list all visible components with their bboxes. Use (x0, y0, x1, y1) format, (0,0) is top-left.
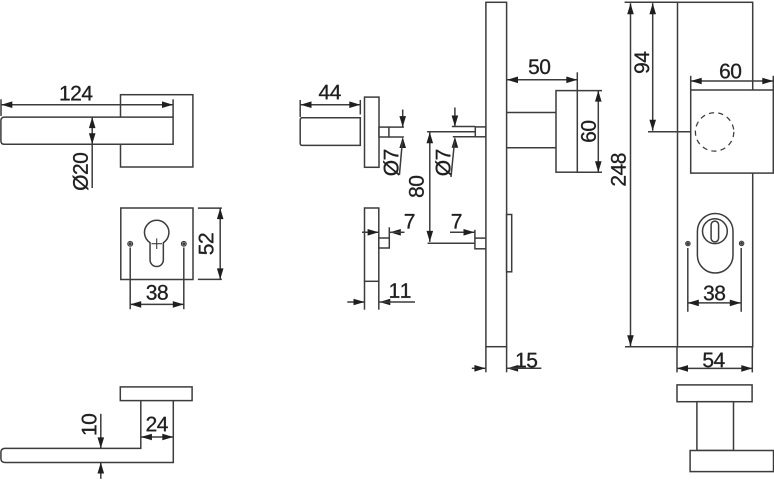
dim 15 left arrow (472, 365, 486, 372)
dim 124 extension line left (0, 99, 2, 116)
dim 60 extension top (577, 90, 602, 92)
cylinder axis extension line (648, 131, 691, 133)
key stub on plate (475, 238, 486, 249)
knob (side view) (556, 91, 577, 173)
plate section (bottom view) (677, 385, 752, 402)
dim 10 upper leader (98, 414, 105, 449)
dim label 60 front (720, 64, 741, 79)
dim label 38 plate (704, 286, 725, 301)
grip (top view) (300, 118, 360, 146)
dim 124 line (1, 101, 173, 108)
key slot (711, 221, 719, 242)
dim 80 line (427, 132, 434, 242)
security block (bottom view) (690, 451, 773, 472)
dim Ø7a lower arrow (399, 137, 406, 175)
dim label 94 (634, 52, 649, 73)
euro cylinder keyhole (145, 220, 169, 266)
dim 11 left arrow (347, 299, 364, 306)
dim 38 plate extension right (740, 248, 742, 312)
cylinder stub (side view) (379, 238, 390, 248)
dim 38 plate extension left (687, 248, 689, 312)
dim 60 block extension left (690, 76, 692, 90)
dim 7b left arrow (450, 229, 475, 236)
dim 52 line (217, 208, 224, 279)
dim label 80 (409, 176, 424, 197)
dim 7a extension (388, 227, 390, 238)
spindle stub (top view) (379, 127, 389, 137)
cylinder cover (side view) (507, 215, 512, 272)
dim 38 line (130, 301, 184, 308)
rosette (top view) (365, 97, 380, 167)
dim label 60 side (581, 121, 596, 142)
dim 11 right arrow (379, 299, 415, 306)
screw right (key rosette) (181, 241, 186, 246)
dim 50 extension (576, 72, 578, 90)
dim label 24 (147, 417, 168, 432)
dim label 248 (611, 153, 626, 185)
spindle square end (475, 127, 486, 137)
bottom extension line (625, 346, 678, 348)
dim 60 extension bottom (577, 171, 602, 173)
dim 44 extension right (359, 100, 361, 115)
dim 44 line (301, 101, 361, 108)
dim 38 plate line (688, 300, 741, 307)
cylinder axis extension (428, 242, 475, 244)
dim 94 line (649, 3, 656, 131)
dim 38 extension right (183, 248, 185, 310)
security block (691, 90, 774, 173)
dim label 54 (703, 353, 724, 368)
dim Ø20 leader line (89, 117, 96, 188)
rosette square (handle front view) (121, 95, 193, 167)
knob neck top line (507, 112, 556, 114)
dim Ø7a extension bottom (389, 136, 404, 138)
dim 54 extension right (751, 347, 753, 373)
dim label 11 (390, 283, 410, 297)
dim label 50 (529, 59, 550, 74)
dim 7a left arrow (362, 229, 379, 236)
dim 50 line (507, 77, 577, 84)
dim 10 lower leader (98, 463, 105, 479)
dim 15 right arrow (507, 365, 541, 372)
knob stem (bottom view) (697, 402, 734, 451)
long plate (side view) (486, 2, 507, 346)
centre cross (152, 238, 163, 249)
screw right (plate) (739, 241, 743, 245)
dim label Ø7b (435, 150, 451, 176)
dim 248 line (627, 3, 634, 346)
dim 44 extension left (299, 100, 301, 117)
spindle top edge (452, 126, 476, 128)
dim label 38 (147, 285, 168, 300)
dim 7a right arrow (390, 229, 405, 236)
screw left (key rosette) (128, 241, 133, 246)
dim 15 extension left (485, 347, 487, 373)
dim label 124 (61, 86, 93, 101)
dim 24 line (141, 434, 173, 441)
top extension line (625, 1, 678, 3)
dim label 44 (319, 85, 341, 99)
spindle bottom edge (453, 136, 476, 138)
dim 11 extension right (378, 281, 380, 309)
dim label 15 (517, 353, 537, 368)
dim 124 extension line right (172, 99, 174, 117)
dim 60 line (595, 91, 602, 173)
dim 52 extension top (198, 207, 222, 209)
dim 60 block line (691, 78, 774, 85)
dim 52 extension bottom (198, 278, 222, 280)
hidden cylinder circle (dashed) (695, 113, 733, 151)
screw left (plate) (686, 241, 690, 245)
rosette plate (side view) (120, 387, 192, 401)
key rosette square (121, 208, 193, 280)
dim 54 extension left (676, 347, 678, 373)
dim label 10 (82, 414, 97, 434)
spindle axis extension (427, 131, 475, 133)
dim Ø7b lower arrow (451, 137, 458, 177)
dim Ø7a upper arrow (399, 110, 406, 128)
dim 7b extension (474, 230, 476, 238)
dim Ø7a extension top (389, 126, 404, 128)
cylinder protection oval (697, 214, 733, 274)
dim 54 line (677, 365, 752, 372)
dim label 7b (452, 214, 462, 228)
long plate (front view) (678, 2, 753, 347)
dim label 52 (199, 233, 214, 254)
dim label 7a (405, 214, 415, 228)
dim label Ø7a (383, 150, 399, 176)
dim 60 block extension right (772, 76, 774, 90)
lever neck and grip (side view) (1, 401, 173, 463)
dim 15 extension right (506, 347, 508, 373)
dim label Ø20 (73, 153, 89, 190)
dim 38 extension left (129, 248, 131, 310)
dim Ø7b upper arrow (452, 108, 459, 127)
knob neck bottom line (507, 147, 556, 149)
key rosette (side view) (365, 208, 379, 281)
lever bar (handle front view) (1, 117, 173, 144)
cylinder face (703, 219, 728, 244)
dim 7b right arrow (487, 229, 511, 236)
dim 11 extension left (364, 281, 366, 309)
